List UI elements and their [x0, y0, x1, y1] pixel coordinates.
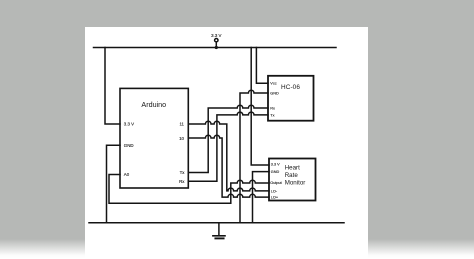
svg-text:LO+: LO+: [271, 195, 279, 199]
svg-text:GND: GND: [271, 170, 280, 174]
svg-text:GND: GND: [270, 91, 279, 95]
svg-text:Arduino: Arduino: [141, 100, 166, 109]
svg-text:Heart: Heart: [285, 164, 300, 171]
wire 3.3V rail to Arduino 3.3V pin: [105, 48, 120, 125]
HC-06 module box: [268, 76, 314, 121]
wire 3.3V rail to HC-06 Vcc: [256, 48, 268, 84]
wire Arduino Rx to HC-06 Tx: [188, 112, 268, 181]
wire Arduino A0 to Monitor Output: [109, 175, 269, 204]
svg-text:Rx: Rx: [179, 179, 185, 184]
Heart Rate Monitor box: [269, 159, 316, 201]
svg-text:11: 11: [179, 122, 184, 127]
Arduino U1 box: [120, 88, 188, 188]
svg-text:Tx: Tx: [270, 114, 274, 118]
wire Arduino GND to ground rail: [107, 145, 121, 223]
svg-text:10: 10: [179, 136, 184, 141]
3.3V rail (top): [94, 47, 337, 49]
wire Arduino pin 10 to Monitor LO+: [188, 135, 269, 197]
ground rail (bottom): [89, 222, 344, 224]
svg-text:Output: Output: [270, 181, 282, 185]
svg-text:3.3 V: 3.3 V: [211, 33, 221, 38]
svg-text:A0: A0: [124, 172, 130, 177]
wire 3.3V rail to Monitor 3.3V: [251, 48, 269, 166]
svg-text:LO-: LO-: [271, 189, 278, 193]
svg-text:3.3 V: 3.3 V: [271, 162, 280, 166]
svg-text:3.3 V: 3.3 V: [124, 122, 134, 127]
gray frame top band: [0, 0, 474, 27]
wire HC-06 GND to ground rail: [240, 90, 268, 223]
wire Monitor GND to ground rail: [253, 172, 270, 223]
wire Arduino Tx to HC-06 Rx: [188, 105, 268, 172]
svg-text:Rate: Rate: [285, 172, 299, 179]
svg-text:Rx: Rx: [270, 107, 275, 111]
gray frame right column: [368, 27, 474, 259]
svg-text:Vcc: Vcc: [270, 82, 276, 86]
ground symbol: [213, 223, 225, 239]
3.3V power symbol: [215, 39, 218, 50]
svg-text:Monitor: Monitor: [285, 180, 306, 187]
gray frame left column: [0, 27, 85, 259]
svg-text:Tx: Tx: [180, 170, 186, 175]
svg-text:HC-06: HC-06: [281, 84, 300, 91]
svg-text:GND: GND: [124, 143, 134, 148]
wire Arduino pin 11 to Monitor LO-: [188, 121, 269, 191]
